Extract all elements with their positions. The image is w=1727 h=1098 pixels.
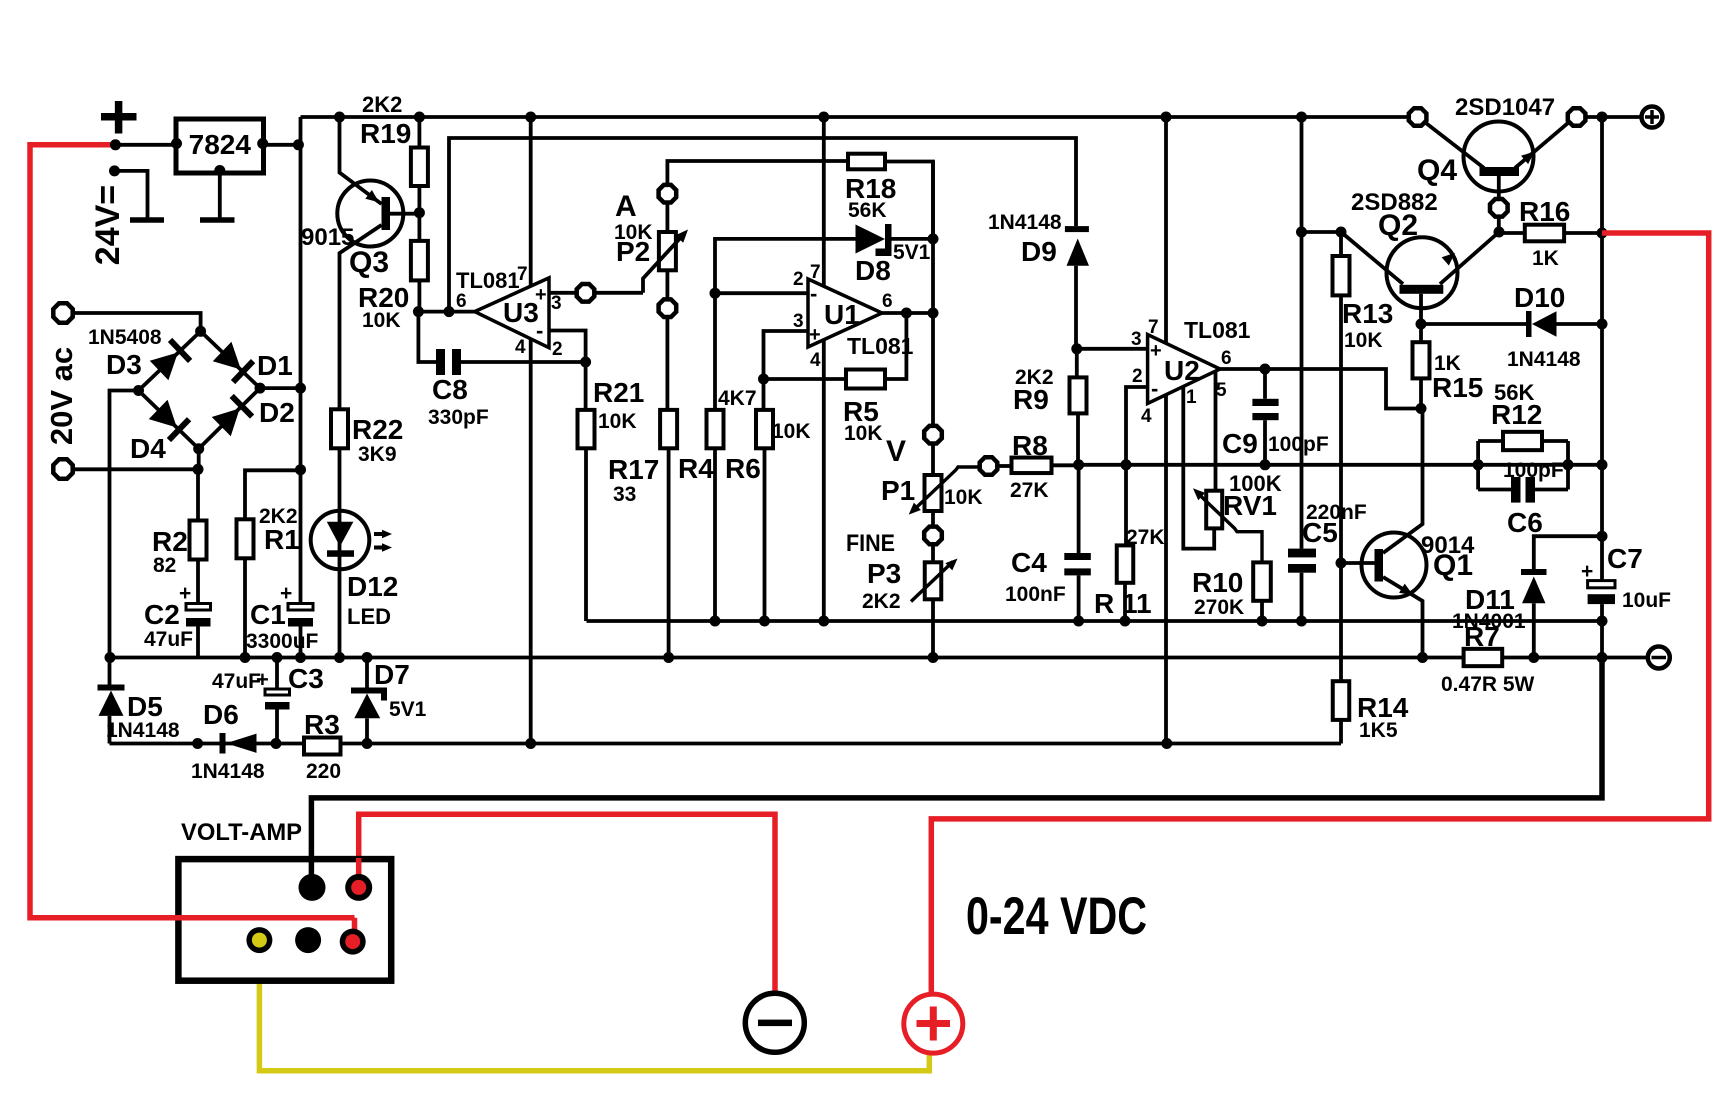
svg-text:+: + xyxy=(1581,560,1593,583)
meter VOLT-AMP box xyxy=(178,859,391,981)
wire AC lower to bridge xyxy=(74,467,199,471)
svg-text:7: 7 xyxy=(1148,317,1159,338)
wire red +24 output feed xyxy=(931,233,1708,992)
wire R13 top link xyxy=(1302,230,1342,234)
ground 7824 xyxy=(214,165,225,176)
wire U3 pin7 to +rail xyxy=(525,112,536,123)
wire : +24V top rail xyxy=(301,115,1409,119)
wire bridge- to D5 xyxy=(110,391,139,658)
svg-text:Q1: Q1 xyxy=(1433,549,1473,582)
svg-text:1N4148: 1N4148 xyxy=(988,211,1062,234)
svg-text:27K: 27K xyxy=(1126,526,1165,549)
svg-text:-: - xyxy=(810,281,817,306)
transistor Q1 9014 xyxy=(1362,533,1427,598)
svg-text:1K5: 1K5 xyxy=(1359,719,1398,742)
resistor R16 1K xyxy=(1499,231,1525,235)
resistor R15 1K xyxy=(1419,324,1423,342)
terminal plus big xyxy=(904,994,963,1053)
svg-text:R4: R4 xyxy=(678,453,714,484)
svg-text:D7: D7 xyxy=(374,659,410,690)
wire U3 output xyxy=(418,310,474,314)
svg-text:47uF: 47uF xyxy=(144,628,193,651)
svg-text:3300uF: 3300uF xyxy=(246,630,319,653)
svg-text:5: 5 xyxy=(1216,380,1227,401)
wire U2 pin7 xyxy=(1161,112,1172,123)
svg-text:2K2: 2K2 xyxy=(362,92,402,117)
resistor R2 xyxy=(196,469,200,520)
svg-text:A: A xyxy=(615,190,637,223)
diode D11 1N4001 xyxy=(1534,536,1602,569)
bridge rectifier frame xyxy=(139,331,261,448)
svg-text:U1: U1 xyxy=(824,299,860,330)
svg-text:R17: R17 xyxy=(608,454,659,485)
svg-text:0-24 VDC: 0-24 VDC xyxy=(966,887,1147,946)
svg-text:D1: D1 xyxy=(257,350,293,381)
svg-text:3: 3 xyxy=(1131,329,1142,350)
wire U3 pin4 to negative line xyxy=(529,339,533,744)
svg-text:-: - xyxy=(536,318,543,343)
svg-text:10K: 10K xyxy=(944,486,983,509)
resistor R10 270K xyxy=(1253,562,1271,600)
svg-text:C9: C9 xyxy=(1222,428,1258,459)
wire U2 pin5 to RV1 top xyxy=(1214,371,1218,491)
svg-text:+: + xyxy=(256,667,269,692)
svg-text:10uF: 10uF xyxy=(1622,589,1671,612)
resistor R22 3K9 xyxy=(331,409,348,448)
svg-text:C8: C8 xyxy=(432,374,468,405)
LED D12 xyxy=(311,511,370,570)
svg-text:10K: 10K xyxy=(844,422,883,445)
svg-text:D5: D5 xyxy=(127,691,163,722)
wire : raw DC vertical from 7824 to bridge xyxy=(299,117,303,470)
svg-text:33: 33 xyxy=(613,483,636,506)
diode D1 xyxy=(212,341,255,384)
resistor R13 10K xyxy=(1339,232,1343,256)
svg-text:3: 3 xyxy=(551,293,562,314)
op-amp U2 TL081 xyxy=(1148,335,1220,404)
resistor R11 27K xyxy=(1124,465,1128,546)
svg-text:C6: C6 xyxy=(1507,507,1543,538)
svg-text:R19: R19 xyxy=(360,118,411,149)
svg-text:P3: P3 xyxy=(867,558,901,589)
diode D9 1N4148 xyxy=(1065,226,1089,232)
svg-text:D3: D3 xyxy=(106,349,142,380)
terminal minus big xyxy=(745,993,804,1052)
svg-text:LED: LED xyxy=(347,604,391,629)
resistor R17 33 xyxy=(666,318,670,410)
svg-text:2: 2 xyxy=(1132,366,1143,387)
resistor R8 27K xyxy=(980,457,998,475)
svg-text:C5: C5 xyxy=(1302,517,1338,548)
diode D8 zener 5V1 xyxy=(856,225,886,254)
svg-text:R10: R10 xyxy=(1192,567,1243,598)
wire : negative supply line y=743.5 xyxy=(110,742,1342,746)
wire U1 pin7 xyxy=(818,112,829,123)
svg-text:56K: 56K xyxy=(848,199,887,222)
svg-text:R7: R7 xyxy=(1464,621,1500,652)
wire red +24V feed to meter xyxy=(30,145,355,940)
svg-text:R21: R21 xyxy=(593,377,644,408)
svg-text:4K7: 4K7 xyxy=(718,387,757,410)
svg-text:24V=: 24V= xyxy=(89,185,127,265)
potentiometer P3 2K2 (FINE) xyxy=(931,546,935,563)
svg-text:U3: U3 xyxy=(503,297,539,328)
svg-text:100nF: 100nF xyxy=(1005,583,1066,606)
svg-text:Q2: Q2 xyxy=(1378,209,1418,242)
wire U2 output xyxy=(1220,369,1421,409)
wire U2 pin1 to RV1 low xyxy=(1183,387,1214,549)
regulator 7824 xyxy=(176,119,264,173)
svg-text:D2: D2 xyxy=(259,397,295,428)
svg-text:R 11: R 11 xyxy=(1094,588,1152,619)
svg-text:5V1: 5V1 xyxy=(893,241,931,264)
svg-text:+: + xyxy=(535,284,547,306)
svg-text:7824: 7824 xyxy=(189,129,252,160)
svg-text:4: 4 xyxy=(1141,406,1152,427)
svg-text:R9: R9 xyxy=(1013,384,1049,415)
svg-text:6: 6 xyxy=(882,291,893,312)
svg-text:4: 4 xyxy=(515,337,526,358)
svg-text:P2: P2 xyxy=(616,236,650,267)
potentiometer P1 10K (V adjust) xyxy=(931,445,935,475)
wire 7824 out to rail xyxy=(263,143,301,147)
resistor R4 4K7 xyxy=(713,293,717,410)
svg-text:100pF: 100pF xyxy=(1503,459,1564,482)
terminal - output xyxy=(1648,647,1670,669)
svg-text:+: + xyxy=(809,324,821,346)
svg-text:D6: D6 xyxy=(203,699,239,730)
svg-text:2K2: 2K2 xyxy=(862,590,901,613)
capacitor C2 xyxy=(196,560,200,604)
svg-text:R3: R3 xyxy=(304,709,340,740)
svg-text:47uF: 47uF xyxy=(212,670,261,693)
node 24V input xyxy=(110,139,121,150)
wire U2 pin4 xyxy=(1164,395,1168,744)
transistor Q3 9015 xyxy=(334,112,345,123)
svg-text:2: 2 xyxy=(793,269,804,290)
svg-text:R12: R12 xyxy=(1491,399,1542,430)
capacitor C5 220nF xyxy=(1296,112,1307,123)
svg-text:R1: R1 xyxy=(264,524,300,555)
wire red top pin into box redraw xyxy=(356,858,362,886)
transistor Q4 2SD1047 xyxy=(1464,122,1534,192)
diode D4 xyxy=(148,399,191,442)
svg-text:R6: R6 xyxy=(725,453,761,484)
svg-text:C3: C3 xyxy=(288,663,324,694)
svg-text:1K: 1K xyxy=(1532,247,1559,270)
svg-text:C2: C2 xyxy=(144,599,180,630)
svg-text:FINE: FINE xyxy=(846,530,895,557)
resistor R5 10K feedback xyxy=(764,377,847,381)
svg-text:R8: R8 xyxy=(1012,430,1048,461)
terminal + output xyxy=(1642,107,1663,128)
resistor R6 10K xyxy=(762,379,766,410)
svg-text:TL081: TL081 xyxy=(847,333,914,359)
svg-text:220: 220 xyxy=(306,760,341,783)
capacitor C1 xyxy=(299,470,303,604)
svg-text:D12: D12 xyxy=(347,571,398,602)
node + input marker xyxy=(101,101,137,134)
svg-text:R15: R15 xyxy=(1432,372,1483,403)
node bridge top xyxy=(195,326,206,337)
svg-text:0.47R 5W: 0.47R 5W xyxy=(1441,673,1535,696)
svg-text:D4: D4 xyxy=(130,433,166,464)
meter pin red top xyxy=(345,874,372,901)
svg-text:7: 7 xyxy=(517,264,528,285)
svg-text:TL081: TL081 xyxy=(1184,317,1251,343)
wire U3 pin2 xyxy=(549,331,586,363)
node bridge bottom xyxy=(193,443,204,454)
svg-text:20V ac: 20V ac xyxy=(44,347,79,445)
wire +rail to plus terminal xyxy=(1597,112,1608,123)
resistor R7 0.47R 5W xyxy=(1464,649,1503,666)
wire red meter to minus output xyxy=(359,814,775,991)
resistor R20 10K xyxy=(411,241,428,281)
svg-text:D9: D9 xyxy=(1021,236,1057,267)
svg-text:270K: 270K xyxy=(1194,596,1244,619)
terminal AC input lower xyxy=(53,459,72,478)
diode D10 1N4148 xyxy=(1421,322,1526,326)
resistor R21 10K xyxy=(584,362,588,410)
wire black into box redraw xyxy=(309,858,315,886)
wire : feedback rail y=464.8 xyxy=(1079,463,1602,467)
svg-text:10K: 10K xyxy=(362,309,401,332)
capacitor C6 100pF xyxy=(1478,488,1511,492)
svg-text:P1: P1 xyxy=(881,475,915,506)
capacitor C7 10uF xyxy=(1600,465,1604,581)
wire U1 pin3 xyxy=(764,331,809,379)
svg-text:R22: R22 xyxy=(352,414,403,445)
svg-text:D10: D10 xyxy=(1514,282,1565,313)
node 24V= aux input xyxy=(109,165,120,176)
svg-text:C1: C1 xyxy=(250,599,286,630)
wire U2 pin2 xyxy=(1126,387,1148,465)
diode D2 xyxy=(211,394,254,437)
diode D6 xyxy=(192,738,203,749)
capacitor C8 330pF xyxy=(418,312,436,362)
svg-text:R16: R16 xyxy=(1519,196,1570,227)
svg-text:100pF: 100pF xyxy=(1268,433,1329,456)
svg-text:10K: 10K xyxy=(1344,329,1383,352)
svg-text:6: 6 xyxy=(456,291,467,312)
terminal AC input upper xyxy=(53,303,72,322)
svg-text:+: + xyxy=(1150,340,1162,362)
meter pin yellow xyxy=(246,927,272,953)
svg-text:TL081: TL081 xyxy=(456,268,520,293)
diode D7 (zener 5V1) xyxy=(362,652,373,663)
wire : U3 output to D9 line y=138 xyxy=(449,138,1076,312)
meter pin red bottom xyxy=(340,929,366,955)
svg-text:U2: U2 xyxy=(1164,355,1200,386)
svg-text:5V1: 5V1 xyxy=(389,698,427,721)
meter pin black top xyxy=(299,874,326,901)
svg-text:6: 6 xyxy=(1221,348,1232,369)
wire U1 out to P1 top (already drawn) xyxy=(924,426,942,444)
svg-text:VOLT-AMP: VOLT-AMP xyxy=(181,819,302,846)
svg-text:-: - xyxy=(1151,376,1158,401)
wire black 0V to meter xyxy=(311,658,1602,887)
diode D3 xyxy=(149,338,192,381)
ground 24V input xyxy=(130,217,164,223)
svg-text:330pF: 330pF xyxy=(428,406,489,429)
capacitor C9 100pF xyxy=(1263,369,1267,399)
svg-text:27K: 27K xyxy=(1010,479,1049,502)
wire U1 pin4 to aux rail xyxy=(822,340,826,622)
svg-text:1: 1 xyxy=(1186,387,1197,408)
resistor R1 xyxy=(245,470,301,519)
diode D5 xyxy=(108,658,112,685)
svg-text:1N5408: 1N5408 xyxy=(88,326,162,349)
svg-text:D8: D8 xyxy=(855,255,891,286)
svg-text:1N4148: 1N4148 xyxy=(1507,348,1581,371)
svg-text:9015: 9015 xyxy=(301,224,354,251)
wire U1 output to P1 xyxy=(882,311,933,315)
svg-text:3K9: 3K9 xyxy=(358,443,397,466)
wire U3 pin3 to P2 wiper xyxy=(549,291,575,295)
potentiometer P2 10K (A adjust) xyxy=(659,185,677,203)
svg-text:+: + xyxy=(179,582,191,605)
node bridge left xyxy=(133,385,144,396)
wire output + column xyxy=(1600,117,1604,465)
svg-text:R13: R13 xyxy=(1342,298,1393,329)
svg-text:C4: C4 xyxy=(1011,547,1047,578)
wire : main 0V rail xyxy=(110,656,1647,660)
svg-text:C7: C7 xyxy=(1607,543,1643,574)
wire AC upper to bridge xyxy=(74,313,201,331)
svg-text:4: 4 xyxy=(810,350,821,371)
svg-text:Q4: Q4 xyxy=(1417,154,1457,187)
svg-text:1N4148: 1N4148 xyxy=(106,719,180,742)
svg-text:V: V xyxy=(886,435,906,468)
svg-text:Q3: Q3 xyxy=(349,246,389,279)
capacitor C3 xyxy=(272,652,283,663)
meter pin black bottom xyxy=(295,927,321,953)
op-amp U1 TL081 xyxy=(808,279,882,347)
wire U1 pin2 to D8 xyxy=(715,239,856,293)
resistor R19 2K2 xyxy=(414,112,425,123)
svg-text:2SD1047: 2SD1047 xyxy=(1455,94,1555,121)
trimmer RV1 100K xyxy=(1206,491,1222,529)
svg-text:10K: 10K xyxy=(772,420,811,443)
wire red into box redraw xyxy=(352,918,358,940)
resistor R3 xyxy=(304,738,341,755)
wire bridge+ to raw DC xyxy=(260,386,301,390)
svg-text:82: 82 xyxy=(153,554,176,577)
wire input to 7824 xyxy=(115,143,176,147)
resistor R12 56K parallel C6 xyxy=(1476,441,1480,490)
op-amp U3 TL081 xyxy=(475,278,549,348)
transistor Q2 2SD882 xyxy=(1387,237,1458,308)
capacitor C4 100nF xyxy=(1077,465,1081,553)
svg-text:RV1: RV1 xyxy=(1223,490,1277,521)
resistor R18 56K xyxy=(848,154,885,170)
wire : auxiliary rail y=621 xyxy=(587,619,1603,623)
wire U2 pin3 xyxy=(1077,347,1148,351)
svg-text:1N4148: 1N4148 xyxy=(191,760,265,783)
svg-text:2: 2 xyxy=(552,339,563,360)
svg-text:7: 7 xyxy=(810,262,821,283)
node bridge right xyxy=(255,383,266,394)
svg-text:3: 3 xyxy=(793,311,804,332)
node raw DC node xyxy=(295,464,306,475)
resistor R9 2K2 xyxy=(1070,377,1087,413)
resistor R14 1K5 xyxy=(1333,681,1350,720)
svg-text:10K: 10K xyxy=(598,410,637,433)
wire yellow meter to plus output xyxy=(259,939,929,1071)
svg-text:R2: R2 xyxy=(152,526,188,557)
wire bridge bottom to AC lower xyxy=(197,449,201,470)
